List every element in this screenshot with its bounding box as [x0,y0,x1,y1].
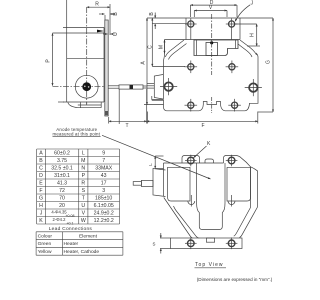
svg-text:W: W [81,218,86,224]
dim D [190,5,237,17]
svg-text:C: C [39,165,43,171]
svg-text:S: S [153,242,156,247]
svg-text:Top View: Top View [195,262,224,268]
dim U [103,33,115,35]
center bump [205,159,214,163]
label J leader [235,5,250,22]
svg-text:72: 72 [59,188,65,194]
svg-text:31±0.1: 31±0.1 [54,173,70,179]
big hole right [245,79,262,96]
leader to top view anode [102,135,211,179]
svg-text:Heater, Cathode: Heater, Cathode [64,249,100,255]
filter box top view [133,169,165,197]
T dim extension [118,89,120,124]
top view outline [164,162,224,164]
svg-text:C: C [148,45,154,49]
front bottom centerline [211,97,213,113]
right ear [224,156,258,172]
anode temperature note [53,127,101,136]
dim B side [99,14,115,20]
side view body [53,0,105,102]
dim B front [152,13,187,30]
svg-text:60±0.2: 60±0.2 [54,150,70,156]
upper small hole left [185,61,198,74]
lead connections table grid [36,232,123,255]
inner right magnet [227,167,251,201]
svg-text:B: B [149,12,155,16]
svg-text:R: R [95,2,99,8]
svg-text:F: F [39,188,42,194]
dim A [144,18,186,105]
svg-text:P: P [46,59,52,63]
front view right shoulder [238,40,258,100]
side view circle horizontal centerline [53,86,105,88]
dim S top view [160,233,171,254]
svg-text:P: P [82,173,86,179]
svg-text:E: E [39,180,43,186]
front view centerline [211,14,213,75]
top view [164,156,258,239]
svg-text:2-Φ4.2: 2-Φ4.2 [53,217,67,222]
svg-text:185±10: 185±10 [95,195,112,201]
dim L top view [155,156,163,169]
captions [195,262,273,282]
left diagonals [164,198,193,239]
svg-text:B: B [39,158,43,164]
dim M [164,40,166,54]
svg-text:A: A [140,61,146,65]
dim H [235,24,260,46]
front view bottom profile [152,96,258,111]
dim F [147,120,258,122]
F extension lines [147,112,149,124]
svg-text:12.2±0.2: 12.2±0.2 [94,218,114,224]
magnet cap box [194,40,238,56]
dim G [240,18,273,112]
svg-text:H: H [39,203,43,209]
mounting feet under body [68,102,101,107]
svg-text:Colour: Colour [38,233,53,239]
left screw boss [188,195,195,207]
svg-text:N: N [81,165,85,171]
flange plate [105,20,109,116]
lead connections table text [38,233,100,255]
upper small hole right [226,61,239,74]
svg-text:70: 70 [59,195,65,201]
svg-text:+0.08: +0.08 [65,214,74,218]
svg-text:K: K [207,141,211,147]
front view left shoulder [164,40,187,100]
svg-text:3: 3 [102,188,105,194]
svg-text:J: J [251,1,254,7]
side view centerline [86,7,88,104]
lead wire [109,85,148,89]
dimension table text [39,150,114,225]
svg-text:M: M [159,45,165,49]
inner left magnet [168,167,190,201]
tab hole left [185,19,197,40]
anode block [197,163,225,230]
svg-text:K: K [39,218,43,224]
body sides [163,163,165,197]
filter box connector left [147,75,163,100]
svg-text:D: D [39,173,43,179]
lower small hole left [185,99,198,112]
svg-text:R: R [81,180,85,186]
svg-text:A: A [39,150,43,156]
svg-text:G: G [266,60,272,64]
svg-text:V: V [82,210,86,216]
svg-text:33MAX: 33MAX [95,165,113,171]
svg-text:43: 43 [101,173,107,179]
right diagonals [240,207,258,238]
svg-text:J: J [40,210,43,216]
svg-text:U: U [113,32,119,36]
svg-text:20: 20 [59,203,65,209]
svg-text:F: F [201,123,204,129]
svg-text:(Dimensions are expressed in “: (Dimensions are expressed in “mm”.) [197,277,273,282]
svg-text:H: H [250,33,256,37]
svg-text:Yellow: Yellow [38,249,52,255]
magnet circle [75,75,98,98]
svg-text:U: U [81,203,85,209]
svg-text:3.75: 3.75 [57,158,67,164]
svg-text:17: 17 [101,180,107,186]
svg-text:Lead Connections: Lead Connections [49,226,93,232]
svg-text:6.1±0.05: 6.1±0.05 [94,203,114,209]
svg-text:measured at this point: measured at this point [53,131,101,136]
dim T [109,89,147,124]
svg-text:9: 9 [102,150,105,156]
svg-text:M: M [81,158,85,164]
svg-text:G: G [39,195,43,201]
svg-text:Green: Green [38,241,52,247]
svg-text:7: 7 [102,158,105,164]
dim V [194,11,227,18]
dim P [52,33,54,85]
svg-text:L: L [148,163,153,166]
svg-text:T: T [82,195,86,201]
dimension table grid [37,149,120,224]
svg-text:Element: Element [79,233,98,239]
svg-text:Heater: Heater [64,241,79,247]
top view ear holes [185,155,237,167]
svg-text:41.3: 41.3 [57,180,67,186]
svg-text:24.9±0.2: 24.9±0.2 [94,210,114,216]
lower small hole right [228,99,241,112]
filament terminal dot [82,82,91,91]
svg-text:L: L [82,150,85,156]
anode temp point arrow [97,30,104,33]
bottom plate [171,238,243,250]
svg-text:32.5 ±0.1: 32.5 ±0.1 [51,165,73,171]
right screw boss [228,195,235,207]
front view top tab [165,18,241,40]
svg-text:B: B [113,12,119,16]
dim R [87,4,110,35]
tab hole right [226,19,238,40]
dim C [152,18,185,66]
big hole left [160,78,177,95]
svg-text:T: T [125,123,128,129]
label K leader [194,146,207,158]
svg-text:+0.1: +0.1 [66,221,73,225]
svg-text:S: S [82,188,86,194]
left ear [182,156,200,164]
